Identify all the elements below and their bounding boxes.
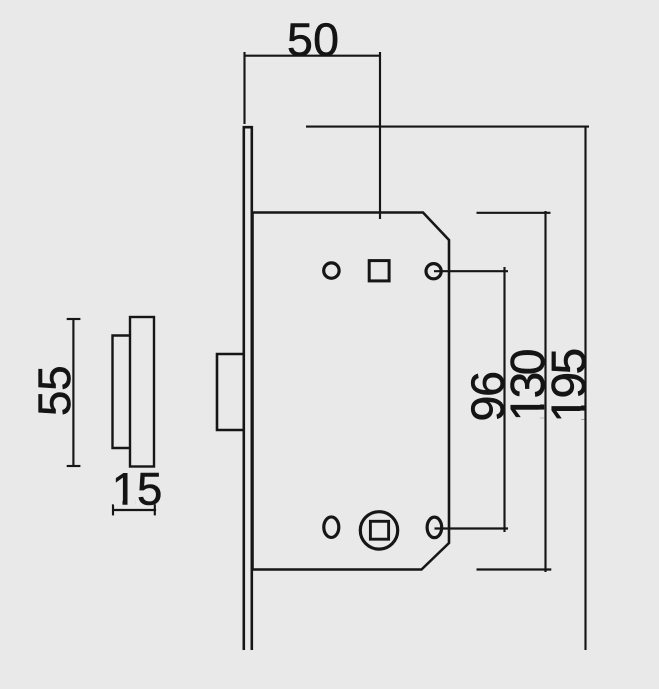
svg-text:55: 55 bbox=[29, 365, 80, 416]
svg-text:50: 50 bbox=[287, 14, 339, 66]
svg-text:15: 15 bbox=[112, 464, 163, 515]
svg-text:195: 195 bbox=[543, 348, 596, 423]
